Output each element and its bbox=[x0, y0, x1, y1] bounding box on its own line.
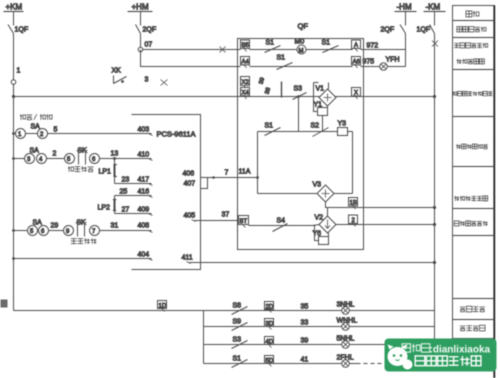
svg-text:403: 403 bbox=[138, 127, 150, 134]
svg-text:-KM: -KM bbox=[426, 3, 441, 12]
contact S8 bbox=[232, 303, 248, 315]
svg-text:+KM: +KM bbox=[6, 3, 23, 12]
svg-text:X4: X4 bbox=[242, 91, 250, 97]
wire V3 row bbox=[258, 193, 317, 195]
pin 408 bbox=[138, 223, 153, 233]
wire SK to pin 410 bbox=[100, 158, 152, 160]
wire 11A into box bbox=[238, 177, 258, 179]
wire pins 406/407 to breaker terminal 11A bbox=[201, 177, 238, 179]
svg-text:4D: 4D bbox=[266, 340, 274, 346]
svg-text:410: 410 bbox=[138, 152, 150, 159]
contact S1 (row1 left) bbox=[265, 40, 281, 53]
terminal BT bbox=[239, 216, 249, 228]
node 07 bbox=[138, 42, 152, 52]
pin 410 bbox=[138, 152, 153, 161]
pin 417 bbox=[138, 177, 153, 186]
lamp 5NHL bbox=[337, 336, 355, 349]
lamp 3NHL bbox=[337, 302, 355, 315]
wire V3 to Y3 drop bbox=[334, 193, 353, 195]
wire from bus to SA close bbox=[14, 158, 25, 160]
svg-text:39: 39 bbox=[301, 338, 309, 345]
svg-text:S4: S4 bbox=[277, 218, 286, 225]
svg-text:+HM: +HM bbox=[132, 3, 149, 12]
wire storage-motor row feed bbox=[143, 49, 241, 51]
svg-text:406: 406 bbox=[183, 171, 195, 178]
pin 405 bbox=[184, 213, 196, 222]
svg-text:1D: 1D bbox=[159, 304, 167, 310]
terminal 2D bbox=[265, 302, 274, 313]
svg-text:M: M bbox=[299, 49, 304, 55]
rectifier V1 bbox=[316, 86, 337, 107]
svg-text:A6: A6 bbox=[353, 60, 361, 66]
svg-text:M0: M0 bbox=[295, 39, 305, 46]
contact S9 bbox=[232, 319, 248, 331]
svg-text:S3: S3 bbox=[294, 86, 303, 93]
lamp YFH bbox=[380, 57, 400, 71]
wire anti-pump row bbox=[258, 131, 353, 133]
contact S1 (anti-pump) bbox=[265, 123, 281, 136]
svg-text:V2: V2 bbox=[315, 215, 324, 222]
contact S3 (signal) bbox=[232, 337, 248, 349]
wire anti-pump left vertical bbox=[257, 132, 259, 194]
wire pin 411 to -KM bus bbox=[190, 249, 435, 263]
lamp 2FHL bbox=[337, 355, 354, 368]
pin 411 bbox=[182, 255, 193, 264]
terminal X4 bbox=[241, 88, 250, 100]
pin 407 bbox=[184, 178, 208, 189]
svg-text:LP2: LP2 bbox=[98, 205, 111, 212]
legend row: storage circuit bbox=[454, 43, 459, 47]
contact S1 (row2) bbox=[277, 55, 293, 70]
svg-text:408: 408 bbox=[138, 223, 150, 230]
svg-text:7: 7 bbox=[225, 170, 229, 177]
svg-text:PCS-9611A: PCS-9611A bbox=[157, 130, 196, 139]
watermark text line2 bbox=[415, 356, 425, 366]
svg-text:V1: V1 bbox=[316, 86, 325, 93]
svg-text:QF: QF bbox=[298, 22, 309, 31]
coil Y6 bbox=[313, 225, 329, 245]
contact S9 with pins 39/38 bbox=[259, 76, 282, 97]
watermark logo cat bbox=[388, 345, 413, 370]
wire pin 404 from bus bbox=[14, 258, 152, 260]
wire +KM bus upper bbox=[13, 12, 15, 26]
junction dot closing line at -KM bbox=[433, 95, 436, 98]
wire +HM bus upper bbox=[140, 12, 142, 26]
wire pin 416 bbox=[115, 195, 152, 197]
legend row: test position bbox=[460, 307, 466, 312]
svg-text:29: 29 bbox=[51, 223, 59, 230]
svg-text:1: 1 bbox=[17, 68, 21, 75]
wire row1 bbox=[250, 49, 353, 51]
svg-text:X2: X2 bbox=[242, 80, 250, 86]
svg-text:S1: S1 bbox=[233, 356, 242, 363]
crossing mark near wire 3 bbox=[161, 80, 168, 86]
wire lamp to -HM drop bbox=[387, 66, 405, 68]
wire closing-supply line (+KM to -KM) bbox=[14, 96, 435, 98]
connector circle on +KM bus bbox=[11, 80, 16, 85]
svg-text:S3: S3 bbox=[233, 337, 242, 344]
motor M0 bbox=[295, 39, 307, 55]
terminal 1D bbox=[158, 301, 167, 312]
svg-text:405: 405 bbox=[184, 213, 196, 220]
legend table frame bbox=[453, 6, 495, 339]
legend row: closing circuit bbox=[454, 196, 459, 201]
junction 11A bbox=[256, 176, 259, 179]
terminal X (row right) bbox=[352, 88, 361, 100]
rectifier V2 bbox=[315, 215, 337, 234]
wire 1B to -KM bus bbox=[364, 207, 435, 209]
breaker QF outline bbox=[238, 39, 364, 250]
terminal 4D bbox=[265, 337, 274, 348]
svg-text:S2: S2 bbox=[311, 123, 320, 130]
svg-text:S1: S1 bbox=[322, 40, 331, 47]
wire bus to SA open bbox=[14, 230, 28, 232]
svg-text:27: 27 bbox=[122, 207, 130, 214]
wire SA to pin 403 bbox=[48, 133, 152, 135]
wire row4 dashed bbox=[350, 363, 387, 365]
svg-text:407: 407 bbox=[184, 181, 196, 188]
switch SA (local/remote) bbox=[16, 124, 48, 139]
contact XK (test plug) bbox=[112, 68, 127, 84]
wire -HM to row1 bbox=[405, 34, 407, 50]
wire 975 to lamp bbox=[361, 66, 380, 68]
svg-text:S1: S1 bbox=[265, 123, 274, 130]
coil Y1 bbox=[314, 83, 329, 132]
breaker 2QF (right pole) bbox=[381, 25, 406, 34]
junction dot bbox=[433, 223, 436, 226]
wire V2 to -KM bus bbox=[336, 224, 435, 226]
svg-text:BT: BT bbox=[240, 219, 248, 225]
pin 403 bbox=[138, 127, 153, 136]
junction dot 411 bbox=[433, 261, 436, 264]
svg-text:23: 23 bbox=[122, 177, 130, 184]
svg-text:B5: B5 bbox=[242, 43, 250, 49]
svg-text:2QF: 2QF bbox=[381, 27, 395, 34]
contact S3 bbox=[293, 86, 307, 100]
svg-text:3: 3 bbox=[145, 77, 149, 84]
pin 416 bbox=[138, 189, 153, 198]
svg-text:37: 37 bbox=[222, 212, 230, 219]
svg-text::dianlixiaoka: :dianlixiaoka bbox=[430, 345, 491, 356]
wire LP1 to pin 417 bbox=[115, 183, 152, 185]
legend row: anti-pump bbox=[456, 144, 461, 149]
wire branch vertical bbox=[203, 311, 205, 364]
wire Y3 to V3 drop bbox=[352, 132, 354, 194]
wire -KM bus upper bbox=[434, 12, 436, 26]
svg-text:XK: XK bbox=[112, 68, 122, 75]
terminal 3D bbox=[265, 319, 274, 330]
wire +KM bus bbox=[13, 34, 15, 311]
svg-text:07: 07 bbox=[145, 42, 153, 49]
svg-text:-HM: -HM bbox=[397, 3, 412, 12]
rectifier V3 bbox=[313, 182, 335, 203]
terminal B5 bbox=[241, 40, 250, 52]
terminal 5D bbox=[265, 356, 274, 367]
wire -HM vertical join bbox=[405, 50, 407, 67]
svg-text:31: 31 bbox=[111, 223, 119, 230]
svg-text:V3: V3 bbox=[313, 182, 322, 189]
junction dots on +KM bus bbox=[12, 132, 15, 135]
svg-text:409: 409 bbox=[138, 207, 150, 214]
legend row: motor bbox=[457, 27, 462, 32]
svg-text:S8: S8 bbox=[233, 303, 242, 310]
svg-text:25: 25 bbox=[120, 189, 128, 196]
wire +HM drop to node 07 bbox=[140, 34, 142, 48]
wire -KM bus bbox=[434, 34, 436, 345]
junction dot left bbox=[12, 95, 15, 98]
svg-text:YFH: YFH bbox=[386, 57, 400, 64]
svg-text:S1: S1 bbox=[277, 55, 286, 62]
watermark green banner bbox=[385, 339, 497, 372]
pin 404 bbox=[138, 252, 153, 261]
junction node 13 bbox=[111, 151, 119, 161]
terminal A6 (row2 right) bbox=[352, 57, 361, 69]
wire signal row3 bbox=[204, 344, 435, 346]
svg-text:411: 411 bbox=[182, 255, 193, 262]
svg-text:13: 13 bbox=[111, 151, 119, 158]
svg-text:41: 41 bbox=[301, 357, 309, 364]
svg-text:975: 975 bbox=[363, 59, 375, 66]
junction dot bbox=[212, 176, 215, 179]
svg-text:5D: 5D bbox=[266, 359, 274, 365]
svg-text:972: 972 bbox=[367, 43, 379, 50]
breaker 2QF (left pole) bbox=[136, 25, 157, 34]
node +KM label bbox=[4, 3, 24, 12]
node +HM label bbox=[128, 3, 153, 12]
svg-text:416: 416 bbox=[138, 189, 150, 196]
svg-text:33: 33 bbox=[301, 320, 309, 327]
wire V3 output bbox=[326, 202, 364, 208]
svg-text:35: 35 bbox=[301, 304, 309, 311]
svg-text:A4: A4 bbox=[242, 60, 250, 66]
svg-text:S9: S9 bbox=[233, 319, 242, 326]
junction dot bbox=[433, 206, 436, 209]
pin 409 bbox=[138, 207, 153, 216]
contact S1 (row1 right) bbox=[322, 40, 339, 53]
wire SA to SK open bbox=[49, 230, 64, 232]
contact S1 (signal) bbox=[232, 356, 248, 368]
svg-text:5: 5 bbox=[54, 127, 58, 134]
terminal A (row1 right) bbox=[352, 40, 361, 52]
coil Y3 bbox=[338, 121, 348, 136]
wire BT to V2 bbox=[249, 225, 320, 226]
edge artifact label bbox=[1, 300, 8, 308]
legend row: work position bbox=[460, 326, 466, 331]
device PCS-9611A outline bbox=[132, 115, 201, 270]
link LP1 bbox=[99, 159, 117, 184]
wire LP2 to pin 409 bbox=[115, 213, 152, 215]
node -KM label bbox=[424, 3, 446, 12]
wire from bus to SA bbox=[14, 133, 16, 135]
link LP2 bbox=[98, 196, 117, 214]
contact S2 bbox=[311, 123, 329, 137]
watermark text line1 bbox=[402, 344, 410, 352]
crossing mark on -KM bus bbox=[432, 41, 438, 47]
breaker 1QF (right pole) bbox=[417, 25, 435, 34]
wire signal main row bbox=[14, 310, 435, 312]
legend row separators bbox=[453, 20, 495, 22]
contact S4 bbox=[273, 218, 288, 232]
svg-text:417: 417 bbox=[138, 177, 150, 184]
legend title bbox=[466, 11, 472, 17]
svg-text:2D: 2D bbox=[266, 305, 274, 311]
wire V2 top to V3 output bbox=[327, 208, 329, 217]
terminal X2 bbox=[241, 77, 250, 89]
svg-text:SA: SA bbox=[31, 124, 41, 131]
switch SA (open command) bbox=[28, 220, 49, 236]
breaker 1QF (left pole) bbox=[8, 25, 28, 34]
svg-text:2QF: 2QF bbox=[143, 27, 157, 34]
legend row: closing supervise bbox=[452, 91, 456, 95]
wire S3 drop bbox=[298, 97, 300, 132]
wire -HM bus upper bbox=[405, 12, 407, 26]
wire SK to pin 408 bbox=[100, 230, 152, 232]
svg-text:1QF: 1QF bbox=[417, 27, 431, 34]
svg-text:S1: S1 bbox=[266, 40, 275, 47]
pushbutton SK (local close) bbox=[65, 148, 100, 172]
lamp WNHL bbox=[337, 318, 358, 331]
junction S3 to antipump row bbox=[297, 95, 300, 98]
wire signal row2 bbox=[204, 326, 435, 328]
label local/remote bbox=[20, 114, 26, 120]
wire row2 bbox=[250, 66, 353, 68]
wire signal row4 bbox=[204, 363, 358, 365]
wire to terminal A4 row bbox=[141, 50, 241, 67]
terminal A4 bbox=[241, 57, 250, 69]
terminal 2 bbox=[349, 215, 358, 227]
node -HM label bbox=[395, 3, 417, 12]
svg-text:2: 2 bbox=[53, 151, 57, 158]
svg-text:404: 404 bbox=[138, 252, 150, 259]
pushbutton SK (local open) bbox=[64, 220, 100, 244]
terminal 1B bbox=[349, 198, 358, 210]
svg-text:11A: 11A bbox=[239, 169, 251, 176]
wire 972 to -HM bbox=[361, 49, 406, 51]
svg-text:3D: 3D bbox=[266, 322, 274, 328]
wire SA to SK bbox=[47, 158, 65, 160]
svg-text:1QF: 1QF bbox=[15, 27, 29, 34]
crossing mark on motor feed wire bbox=[220, 47, 226, 53]
wire pin 405 to terminal BT bbox=[195, 220, 241, 222]
svg-text:LP1: LP1 bbox=[99, 169, 112, 176]
switch SA (close command) bbox=[25, 148, 47, 164]
legend row: opening circuit bbox=[454, 221, 459, 226]
svg-text:Y3: Y3 bbox=[338, 121, 347, 128]
